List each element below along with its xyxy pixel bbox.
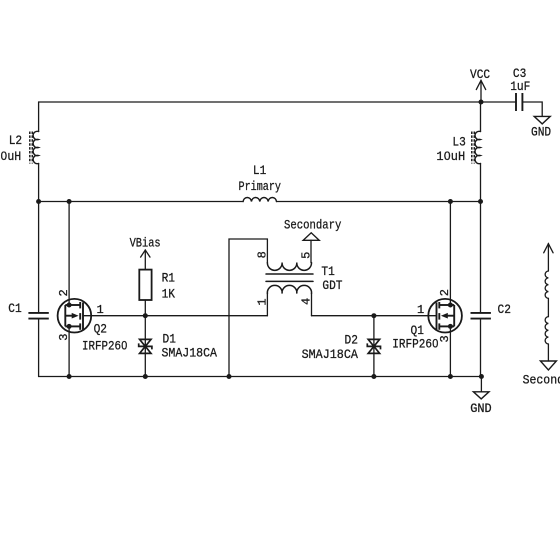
svg-text:IRFP260: IRFP260: [392, 337, 438, 352]
svg-text:Primary: Primary: [239, 179, 282, 194]
svg-text:Second: Second: [523, 372, 560, 387]
svg-text:VBias: VBias: [130, 235, 161, 250]
svg-text:1: 1: [256, 298, 270, 305]
svg-text:D2: D2: [345, 333, 358, 348]
svg-text:8: 8: [256, 251, 270, 258]
svg-text:L2: L2: [9, 133, 22, 148]
svg-text:1K: 1K: [162, 287, 176, 302]
svg-text:L1: L1: [253, 163, 267, 178]
svg-text:GDT: GDT: [322, 278, 342, 293]
svg-text:VCC: VCC: [470, 67, 490, 82]
svg-text:10uH: 10uH: [436, 149, 465, 164]
svg-text:1: 1: [417, 303, 424, 317]
svg-text:C2: C2: [498, 302, 511, 317]
svg-text:3: 3: [57, 334, 71, 341]
svg-text:R1: R1: [162, 270, 176, 285]
svg-text:4: 4: [300, 298, 314, 305]
svg-text:Q2: Q2: [94, 322, 107, 337]
svg-text:2: 2: [438, 289, 452, 296]
svg-text:C1: C1: [8, 301, 22, 316]
svg-text:SMAJ18CA: SMAJ18CA: [162, 345, 218, 360]
svg-text:2: 2: [57, 289, 71, 296]
svg-text:L3: L3: [452, 134, 465, 149]
svg-text:GND: GND: [470, 401, 492, 416]
svg-text:T1: T1: [321, 264, 335, 279]
svg-text:IRFP260: IRFP260: [82, 339, 128, 354]
svg-text:GND: GND: [531, 125, 551, 140]
svg-text:1: 1: [97, 303, 104, 317]
svg-text:Secondary: Secondary: [284, 218, 342, 233]
svg-text:SMAJ18CA: SMAJ18CA: [302, 347, 359, 362]
svg-text:3: 3: [438, 335, 452, 342]
svg-text:5: 5: [300, 252, 314, 259]
svg-text:1uF: 1uF: [510, 79, 530, 94]
